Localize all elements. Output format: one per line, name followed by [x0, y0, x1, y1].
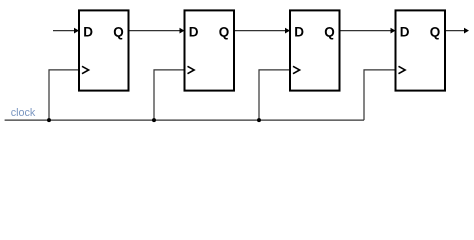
wire riser clock to U4 — [364, 70, 396, 120]
svg-text:clock: clock — [11, 107, 36, 119]
wire U1 Q to U2 D — [128, 28, 184, 34]
svg-text:D: D — [83, 24, 93, 39]
junction dot at U3 riser — [257, 118, 261, 122]
svg-text:D: D — [400, 24, 410, 39]
D flip-flop U3 — [290, 10, 340, 90]
svg-text:D: D — [189, 24, 199, 39]
svg-text:D: D — [294, 24, 304, 39]
junction dot at U2 riser — [152, 118, 156, 122]
junction dot at U1 riser — [47, 118, 51, 122]
wire riser clock to U3 — [259, 70, 290, 120]
wire input stub to U1 D — [53, 28, 79, 34]
wire riser clock to U1 — [49, 70, 79, 120]
wire U2 Q to U3 D — [234, 28, 290, 34]
svg-text:Q: Q — [113, 24, 124, 39]
D flip-flop U1 — [79, 10, 129, 90]
wire U3 Q to U4 D — [340, 28, 396, 34]
clock net bus wire — [5, 119, 364, 121]
svg-text:Q: Q — [430, 24, 441, 39]
D flip-flop U4 — [396, 10, 446, 90]
wire U4 Q output arrow — [445, 28, 469, 34]
svg-text:Q: Q — [324, 24, 335, 39]
wire riser clock to U2 — [154, 70, 185, 120]
svg-text:Q: Q — [219, 24, 230, 39]
D flip-flop U2 — [185, 10, 235, 90]
